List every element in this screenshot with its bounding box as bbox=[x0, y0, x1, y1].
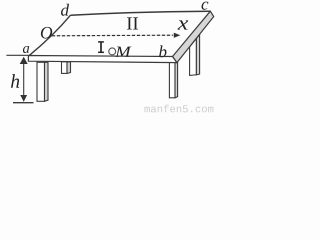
label b bbox=[159, 45, 166, 57]
edge d-c (back) bbox=[71, 11, 211, 15]
label O bbox=[41, 27, 52, 39]
table leg front-left bbox=[37, 62, 48, 101]
label h bbox=[11, 74, 19, 88]
table top front face slab bbox=[28, 56, 177, 63]
label d bbox=[61, 4, 69, 16]
label x bbox=[178, 20, 189, 29]
h dimension arrow line bbox=[23, 59, 25, 100]
label a bbox=[23, 46, 29, 53]
right side face band b-c bbox=[173, 11, 214, 62]
label c bbox=[202, 2, 209, 10]
x axis dashed line bbox=[52, 34, 173, 37]
h dimension top tick bbox=[6, 54, 28, 56]
label I (region) bbox=[98, 42, 104, 52]
table leg back-left bbox=[62, 62, 71, 74]
edge a-d (left slant) bbox=[29, 15, 70, 55]
point M circle bbox=[109, 48, 116, 55]
label II (region) bbox=[127, 17, 138, 29]
h arrowhead up bbox=[20, 57, 28, 64]
x axis arrowhead bbox=[174, 33, 181, 38]
h arrowhead down bbox=[20, 95, 27, 102]
watermark manfen5.com bbox=[145, 105, 214, 113]
table top surface bbox=[29, 11, 210, 56]
label M bbox=[115, 47, 132, 57]
table leg back-right bbox=[190, 35, 200, 76]
h dimension bottom tick bbox=[13, 102, 34, 104]
table leg front-right bbox=[169, 62, 177, 98]
